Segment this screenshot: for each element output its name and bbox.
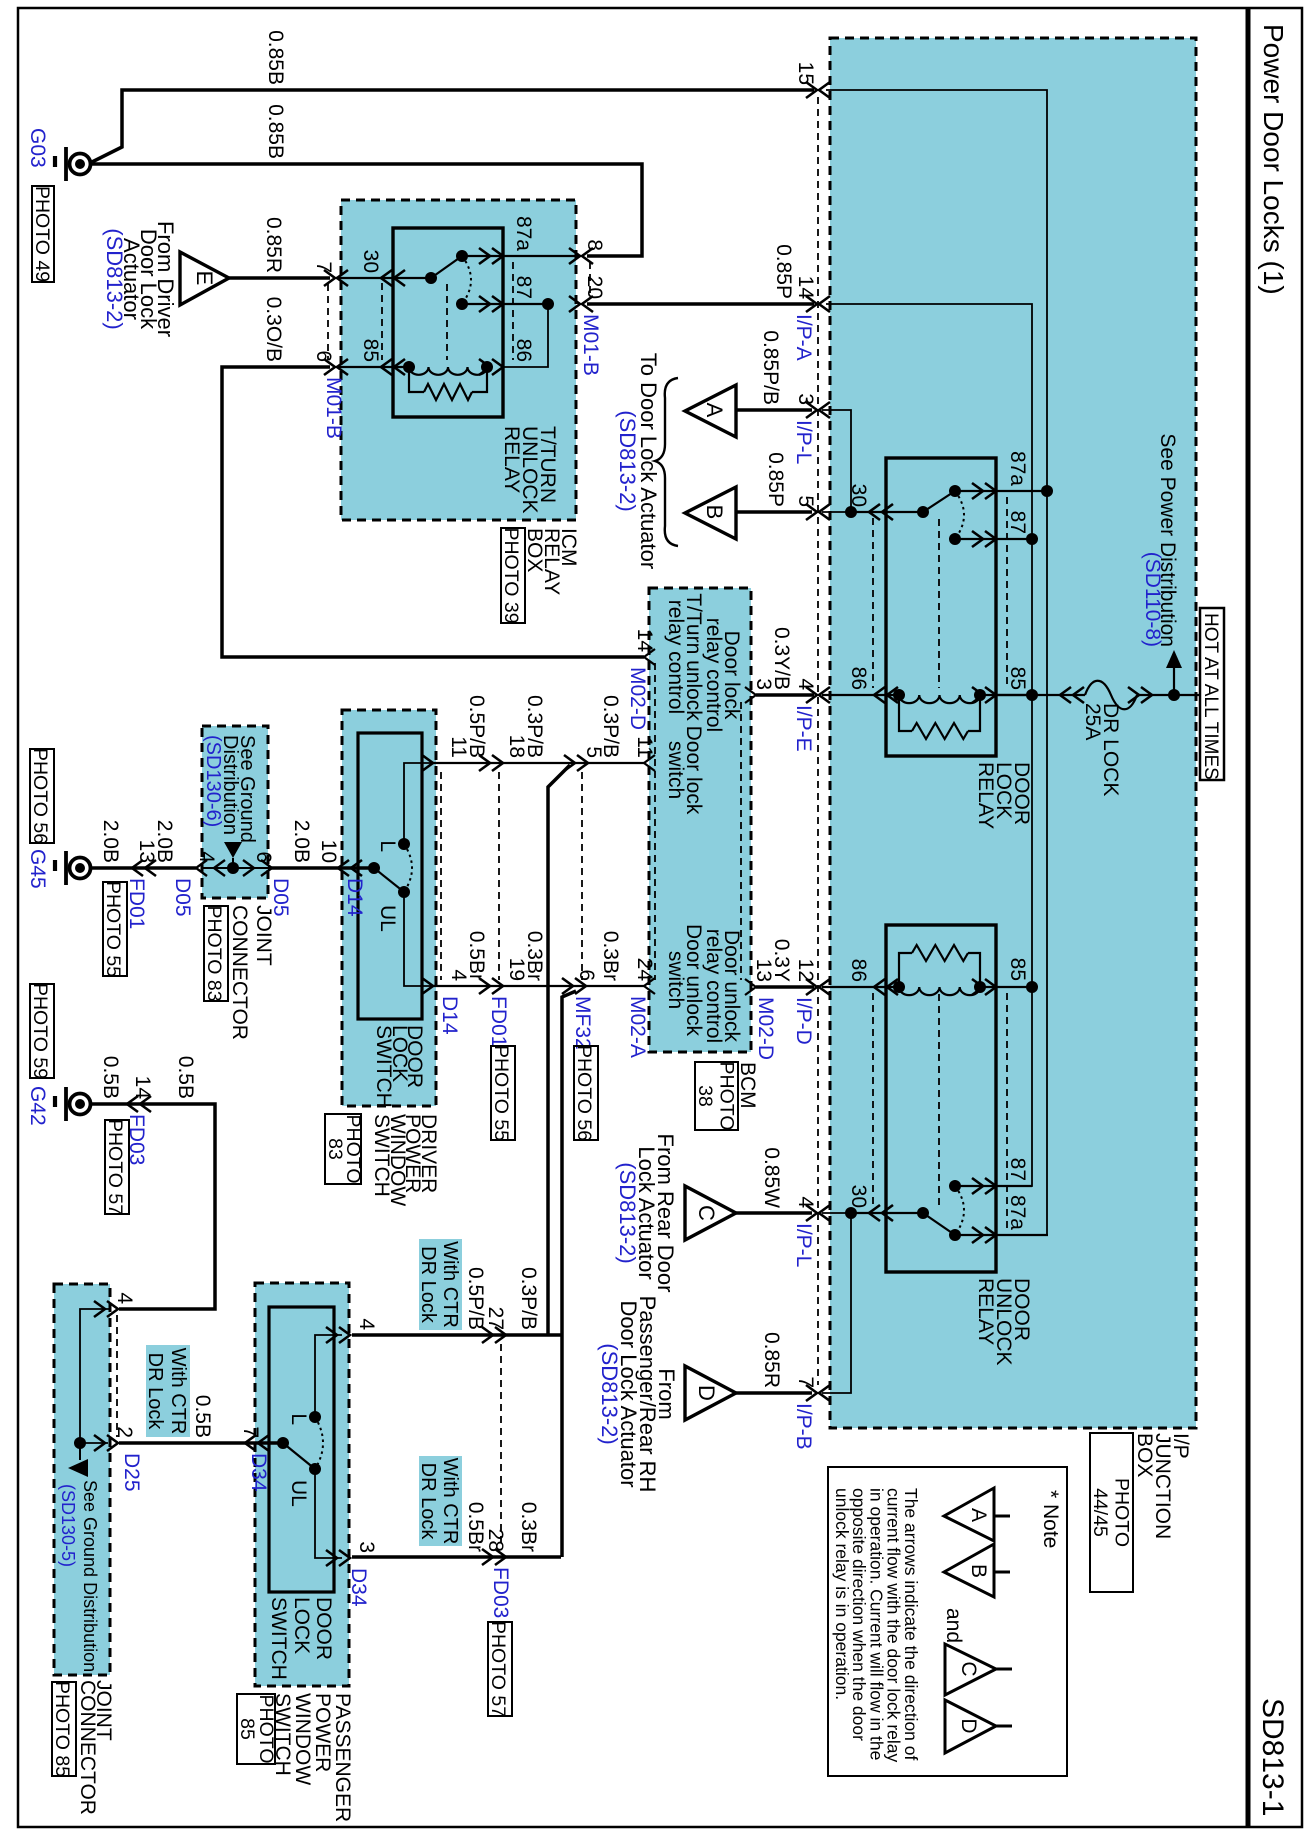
- svg-text:PHOTO: PHOTO: [716, 1062, 738, 1131]
- svg-text:PHOTO 57: PHOTO 57: [104, 1119, 126, 1215]
- svg-text:D34: D34: [347, 1568, 370, 1607]
- svg-text:(SD813-2): (SD813-2): [597, 1343, 622, 1444]
- svg-text:86: 86: [847, 959, 870, 982]
- svg-text:0.5B: 0.5B: [99, 1056, 122, 1099]
- svg-text:(SD110-8): (SD110-8): [1141, 552, 1164, 647]
- svg-text:14: 14: [131, 1076, 154, 1100]
- svg-text:relay control: relay control: [664, 600, 687, 714]
- svg-text:Power Door Locks (1): Power Door Locks (1): [1258, 24, 1289, 295]
- svg-text:D05: D05: [171, 878, 194, 917]
- svg-text:44/45: 44/45: [1089, 1488, 1111, 1537]
- svg-text:(SD813-2): (SD813-2): [615, 1162, 640, 1263]
- svg-text:3: 3: [794, 393, 817, 405]
- svg-text:RELAY: RELAY: [974, 1278, 997, 1345]
- svg-text:D34: D34: [247, 1453, 270, 1492]
- svg-text:27: 27: [484, 1307, 507, 1330]
- svg-text:unlock relay is in operation.: unlock relay is in operation.: [832, 1488, 852, 1700]
- svg-text:A: A: [967, 1508, 990, 1522]
- svg-text:24: 24: [633, 958, 656, 982]
- svg-text:28: 28: [484, 1529, 507, 1552]
- svg-text:D14: D14: [343, 878, 366, 917]
- svg-text:E: E: [192, 271, 217, 286]
- svg-text:DR Lock: DR Lock: [417, 1463, 439, 1541]
- svg-text:(SD813-2): (SD813-2): [102, 228, 127, 329]
- svg-text:BOX: BOX: [523, 528, 546, 572]
- svg-text:2: 2: [113, 1426, 136, 1438]
- svg-text:HOT AT ALL TIMES: HOT AT ALL TIMES: [1200, 613, 1221, 780]
- svg-text:PHOTO 57: PHOTO 57: [487, 1621, 509, 1717]
- svg-text:85: 85: [1006, 958, 1029, 981]
- svg-text:D25: D25: [120, 1453, 143, 1492]
- svg-text:See Ground Distribution: See Ground Distribution: [80, 1480, 100, 1672]
- svg-text:(SD130-6): (SD130-6): [202, 735, 224, 827]
- svg-text:BOX: BOX: [1133, 1433, 1156, 1477]
- svg-text:3: 3: [752, 678, 775, 690]
- svg-text:4: 4: [794, 678, 817, 690]
- svg-text:0.3Br: 0.3Br: [599, 931, 622, 981]
- svg-text:I/P-L: I/P-L: [792, 420, 815, 464]
- svg-text:6: 6: [312, 350, 335, 362]
- svg-text:0.5B: 0.5B: [174, 1056, 197, 1099]
- svg-text:11: 11: [633, 736, 656, 758]
- svg-text:85: 85: [359, 339, 382, 362]
- svg-text:0.5Br: 0.5Br: [464, 1502, 487, 1552]
- svg-text:86: 86: [512, 339, 535, 362]
- svg-text:4: 4: [355, 1318, 378, 1330]
- svg-text:(SD813-2): (SD813-2): [615, 410, 640, 511]
- svg-text:PHOTO 49: PHOTO 49: [31, 186, 53, 282]
- svg-text:30: 30: [847, 484, 870, 507]
- svg-text:DOOR: DOOR: [312, 1597, 335, 1660]
- svg-text:CONNECTOR: CONNECTOR: [228, 905, 251, 1040]
- svg-text:14: 14: [794, 276, 817, 300]
- svg-text:MF32: MF32: [571, 996, 594, 1050]
- svg-text:UL: UL: [287, 1480, 310, 1507]
- svg-text:7: 7: [312, 261, 335, 273]
- svg-text:G45: G45: [26, 849, 49, 889]
- svg-text:B: B: [702, 505, 727, 520]
- svg-text:87: 87: [512, 276, 535, 299]
- svg-text:85: 85: [1006, 667, 1029, 690]
- svg-text:M02-A: M02-A: [626, 996, 649, 1058]
- svg-text:0.5B: 0.5B: [191, 1395, 214, 1438]
- svg-text:2.0B: 2.0B: [99, 820, 122, 863]
- svg-text:L: L: [376, 840, 399, 852]
- svg-text:FD01: FD01: [125, 878, 148, 929]
- svg-text:relay control: relay control: [702, 929, 725, 1043]
- svg-text:A: A: [702, 403, 727, 418]
- svg-text:C: C: [957, 1661, 980, 1676]
- svg-text:* Note: * Note: [1039, 1490, 1062, 1548]
- svg-text:0.85W: 0.85W: [760, 1147, 783, 1208]
- svg-text:SWITCH: SWITCH: [370, 1114, 393, 1197]
- svg-text:PHOTO 55: PHOTO 55: [102, 881, 124, 977]
- svg-text:4: 4: [113, 1292, 136, 1304]
- svg-text:38: 38: [694, 1085, 716, 1107]
- svg-text:RELAY: RELAY: [974, 762, 997, 829]
- svg-text:FD03: FD03: [489, 1567, 512, 1618]
- svg-text:85: 85: [236, 1718, 258, 1740]
- svg-text:87: 87: [1006, 511, 1029, 534]
- svg-text:0.85P/B: 0.85P/B: [759, 330, 782, 405]
- svg-text:switch: switch: [664, 741, 687, 799]
- svg-text:switch: switch: [664, 951, 687, 1009]
- svg-text:PHOTO 55: PHOTO 55: [490, 1045, 512, 1141]
- svg-text:2.0B: 2.0B: [290, 820, 313, 863]
- svg-text:15: 15: [794, 62, 817, 85]
- svg-text:SWITCH: SWITCH: [271, 1693, 294, 1776]
- svg-text:5: 5: [582, 746, 605, 758]
- svg-text:19: 19: [505, 958, 528, 981]
- svg-text:12: 12: [794, 959, 817, 982]
- svg-text:4: 4: [447, 969, 470, 981]
- svg-text:DR Lock: DR Lock: [417, 1246, 439, 1324]
- svg-text:10: 10: [317, 840, 340, 863]
- svg-text:BCM: BCM: [736, 1062, 759, 1109]
- svg-text:With CTR: With CTR: [439, 1458, 461, 1545]
- svg-text:87a: 87a: [1006, 451, 1029, 486]
- svg-text:7: 7: [239, 1426, 262, 1438]
- svg-text:86: 86: [847, 667, 870, 690]
- svg-text:SWITCH: SWITCH: [372, 1025, 395, 1108]
- svg-text:DR Lock: DR Lock: [144, 1353, 166, 1431]
- svg-text:D: D: [957, 1718, 980, 1733]
- svg-text:FD01: FD01: [487, 996, 510, 1047]
- svg-text:I/P-E: I/P-E: [792, 705, 815, 752]
- svg-text:83: 83: [324, 1138, 346, 1160]
- svg-text:C: C: [694, 1205, 719, 1221]
- svg-text:L: L: [287, 1413, 310, 1425]
- svg-text:PHOTO 39: PHOTO 39: [500, 527, 522, 623]
- svg-text:25A: 25A: [1081, 703, 1104, 740]
- svg-text:87a: 87a: [1006, 1195, 1029, 1230]
- svg-text:0.3Br: 0.3Br: [517, 1502, 540, 1552]
- svg-text:87a: 87a: [512, 216, 535, 251]
- svg-text:18: 18: [505, 735, 528, 758]
- svg-text:11: 11: [447, 736, 470, 758]
- svg-text:0.85R: 0.85R: [262, 217, 285, 273]
- svg-text:20: 20: [583, 276, 606, 299]
- svg-text:14: 14: [633, 629, 656, 653]
- svg-text:G03: G03: [26, 128, 49, 168]
- svg-text:I/P-L: I/P-L: [792, 1223, 815, 1267]
- svg-text:0.85B: 0.85B: [264, 30, 287, 85]
- svg-text:B: B: [967, 1564, 990, 1578]
- svg-text:G42: G42: [26, 1086, 49, 1126]
- svg-text:87: 87: [1006, 1158, 1029, 1181]
- svg-text:0.85R: 0.85R: [760, 1332, 783, 1388]
- svg-text:UL: UL: [376, 905, 399, 932]
- svg-text:6: 6: [252, 851, 275, 863]
- svg-text:I/P-A: I/P-A: [792, 314, 815, 361]
- svg-text:PHOTO 59: PHOTO 59: [29, 983, 51, 1079]
- svg-text:and: and: [942, 1608, 965, 1643]
- svg-text:With CTR: With CTR: [167, 1348, 189, 1435]
- svg-text:D: D: [694, 1385, 719, 1401]
- svg-text:30: 30: [847, 1185, 870, 1208]
- svg-text:0.85B: 0.85B: [264, 104, 287, 159]
- svg-text:JOINT: JOINT: [252, 905, 275, 966]
- svg-text:M01-B: M01-B: [579, 314, 602, 376]
- svg-text:8: 8: [583, 239, 606, 251]
- svg-text:PHOTO 56: PHOTO 56: [573, 1045, 595, 1141]
- svg-text:I/P-D: I/P-D: [792, 997, 815, 1045]
- svg-text:30: 30: [359, 250, 382, 273]
- svg-text:0.5P/B: 0.5P/B: [464, 1267, 487, 1330]
- svg-text:0.85P: 0.85P: [764, 452, 787, 507]
- svg-text:SD813-1: SD813-1: [1256, 1698, 1289, 1816]
- svg-text:6: 6: [575, 969, 598, 981]
- svg-text:SWITCH: SWITCH: [267, 1597, 290, 1680]
- svg-text:0.3P/B: 0.3P/B: [517, 1267, 540, 1330]
- svg-text:PHOTO 56: PHOTO 56: [29, 748, 51, 844]
- svg-text:13: 13: [135, 840, 158, 863]
- svg-text:(SD130-5): (SD130-5): [58, 1484, 78, 1567]
- svg-text:4: 4: [794, 1196, 817, 1208]
- svg-text:3: 3: [355, 1541, 378, 1553]
- svg-text:0.3O/B: 0.3O/B: [262, 297, 285, 362]
- svg-text:I/P-B: I/P-B: [792, 1403, 815, 1450]
- svg-text:5: 5: [794, 495, 817, 507]
- svg-text:PHOTO 83: PHOTO 83: [203, 905, 225, 1001]
- svg-text:M02-D: M02-D: [626, 667, 649, 730]
- svg-text:4: 4: [195, 851, 218, 863]
- svg-text:With CTR: With CTR: [439, 1241, 461, 1328]
- svg-text:LOCK: LOCK: [290, 1597, 313, 1654]
- svg-text:M02-D: M02-D: [754, 997, 777, 1060]
- svg-text:CONNECTOR: CONNECTOR: [76, 1680, 99, 1815]
- svg-text:M01-B: M01-B: [322, 377, 345, 439]
- svg-text:0.85P: 0.85P: [772, 244, 795, 299]
- svg-text:13: 13: [752, 959, 775, 982]
- svg-text:7: 7: [794, 1376, 817, 1388]
- svg-text:D14: D14: [438, 996, 461, 1035]
- svg-text:RELAY: RELAY: [500, 426, 523, 493]
- svg-text:PHOTO 85: PHOTO 85: [51, 1681, 73, 1777]
- svg-text:PHOTO: PHOTO: [1111, 1478, 1133, 1547]
